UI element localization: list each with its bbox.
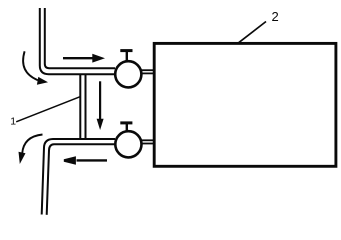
flow arrow right (supply direction) — [63, 54, 105, 63]
return pipe (bottom, double line with left drop) — [42, 139, 115, 215]
radiator 2 (rectangle) — [154, 43, 336, 166]
svg-text:1: 1 — [10, 116, 16, 128]
valve V2 stem — [126, 124, 128, 131]
svg-text:2: 2 — [272, 9, 279, 24]
leader line for label 2 — [238, 22, 266, 44]
curved flow arrow (lower-left drop) — [19, 135, 43, 165]
valve V2 handle bar — [120, 121, 132, 124]
valve V1 handle bar — [120, 49, 132, 52]
supply stub pipe to radiator — [140, 70, 156, 73]
supply riser pipe (top-left, double line) — [40, 8, 115, 74]
bypass pipe (vertical double line, node 1) — [80, 74, 85, 140]
valve V1 (top, circle body) — [115, 61, 141, 87]
valve V1 stem — [126, 52, 128, 61]
flow arrow down (bypass direction) — [97, 81, 104, 130]
return stub pipe to radiator — [140, 140, 156, 143]
leader line for label 1 — [16, 97, 80, 122]
flow arrow left (return direction) — [64, 156, 107, 165]
curved flow arrow (upper-left riser) — [23, 51, 48, 84]
valve V2 (bottom, circle body) — [115, 131, 141, 157]
